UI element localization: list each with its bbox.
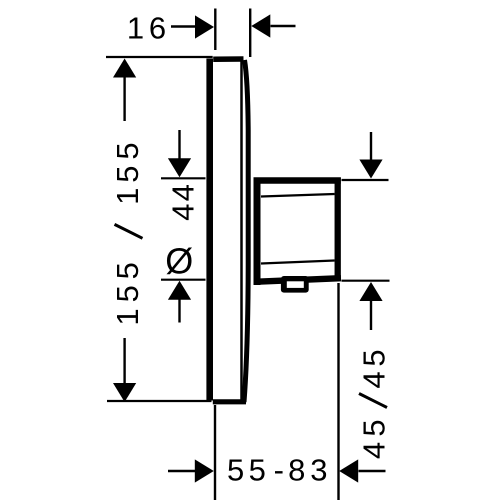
svg-text:4: 4 xyxy=(357,442,392,459)
dim 155/155: slash xyxy=(115,224,143,238)
dim 45/45: slash xyxy=(359,394,387,408)
svg-text:5: 5 xyxy=(227,452,244,487)
svg-text:3: 3 xyxy=(310,452,327,487)
wall plate bottom edge xyxy=(213,399,246,404)
dim 16: left tail xyxy=(171,25,196,27)
wall plate front rim curve xyxy=(244,60,248,402)
svg-text:8: 8 xyxy=(288,452,305,487)
dim 155/155: down arrow xyxy=(113,383,136,402)
dim 55-83: right tail xyxy=(359,470,386,472)
svg-text:5: 5 xyxy=(110,285,145,302)
dim 45/45: down arrow xyxy=(359,160,382,179)
svg-text:5: 5 xyxy=(110,142,145,159)
wall plate front face line xyxy=(240,62,243,402)
dim Ø44: top tick xyxy=(161,177,206,179)
dim 16: right extension line xyxy=(249,9,251,58)
svg-text:4: 4 xyxy=(166,204,201,221)
dim 16: left extension line (wall face) xyxy=(214,9,216,51)
svg-text:Ø: Ø xyxy=(165,240,193,281)
dim Ø44: down arrow xyxy=(168,158,191,177)
wall plate left (rear) edge xyxy=(206,59,213,401)
dim 55-83: left tail xyxy=(168,470,196,472)
svg-text:5: 5 xyxy=(110,165,145,182)
svg-text:5: 5 xyxy=(357,419,392,436)
svg-text:4: 4 xyxy=(357,371,392,388)
dim Ø44: lower tail xyxy=(178,298,180,323)
wall plate top edge xyxy=(213,56,243,62)
dim 16: left-pointing arrow xyxy=(251,14,270,37)
svg-text:1: 1 xyxy=(110,188,145,205)
svg-text:5: 5 xyxy=(249,452,266,487)
valve box inner top line xyxy=(261,194,335,197)
dim Ø44: upper tail xyxy=(178,130,180,161)
dim 45/45: upper tail xyxy=(370,132,372,161)
dim 155/155: bottom extension line xyxy=(107,400,212,402)
dim 45/45: top extension line xyxy=(342,179,389,181)
dim 16: right-pointing arrow xyxy=(195,15,214,38)
svg-text:5: 5 xyxy=(110,262,145,279)
dim 45/45: up arrow xyxy=(359,282,382,301)
svg-text:1: 1 xyxy=(110,308,145,325)
valve box inner bottom line xyxy=(261,261,335,264)
valve box bottom edge xyxy=(254,278,341,282)
svg-text:-: - xyxy=(274,452,284,487)
svg-text:1: 1 xyxy=(127,11,144,46)
dim 55-83: left-pointing arrow xyxy=(339,459,358,482)
valve box right edge xyxy=(335,178,341,282)
dim Ø44: up arrow xyxy=(168,281,191,300)
valve box top edge xyxy=(254,177,341,184)
svg-text:5: 5 xyxy=(357,349,392,366)
dim 55-83: left extension line xyxy=(214,405,216,500)
valve box left edge xyxy=(254,178,261,286)
dim 155/155: lower tail xyxy=(123,338,125,384)
dim 55-83: right extension line xyxy=(337,283,339,500)
dim Ø44: bottom tick xyxy=(161,279,206,281)
dim 55-83: right-pointing arrow xyxy=(195,459,214,482)
dim 45/45: bottom extension line xyxy=(342,280,390,282)
dim 155/155: top extension line xyxy=(106,56,213,58)
dim 155/155: up arrow xyxy=(113,59,136,78)
svg-text:6: 6 xyxy=(149,11,166,46)
dim 45/45: lower tail xyxy=(370,300,372,331)
dim 16: right tail xyxy=(271,25,296,27)
dim 155/155: upper tail xyxy=(123,77,125,121)
tab below valve box xyxy=(281,276,309,293)
svg-text:4: 4 xyxy=(166,184,201,201)
